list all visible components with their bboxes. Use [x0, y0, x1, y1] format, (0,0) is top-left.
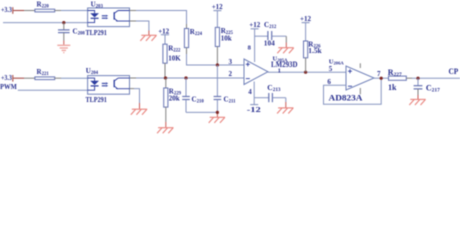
- U203 phototransistor: [113, 12, 115, 19]
- svg-text:C208: C208: [73, 28, 86, 37]
- svg-text:CP: CP: [449, 66, 459, 76]
- net 2 wire: [130, 77, 245, 79]
- power +12 for R222: [158, 28, 169, 45]
- svg-text:104: 104: [264, 38, 275, 47]
- junction dot R222/R229 on net2: [164, 76, 167, 79]
- wire U206A output: [374, 77, 389, 79]
- capacitor C212: [255, 21, 287, 48]
- capacitor C210: [182, 78, 204, 112]
- svg-text:R221: R221: [37, 68, 50, 77]
- U203 LED: [88, 11, 95, 14]
- power ground below C210/C211: [209, 117, 225, 123]
- wire U203 collector to R224: [130, 11, 187, 25]
- port +3.3 (row 1): [1, 5, 13, 14]
- svg-text:C212: C212: [264, 21, 277, 30]
- wire R224 to net3: [187, 54, 245, 65]
- svg-text:LM293D: LM293D: [271, 60, 298, 69]
- svg-text:R227: R227: [388, 68, 402, 78]
- wire U204 emitter to ground: [130, 89, 140, 109]
- svg-text:8: 8: [248, 44, 252, 51]
- wire U205A output to U206A: [268, 71, 346, 73]
- op-amp U206A AD823A: [327, 58, 374, 94]
- capacitor C213: [254, 83, 286, 108]
- power ground at C212: [277, 48, 293, 54]
- svg-text:C211: C211: [224, 96, 237, 105]
- wire R221 to U204 pin1: [61, 77, 88, 79]
- resistor R227: [388, 68, 412, 92]
- capacitor C211: [214, 65, 236, 112]
- resistor R220: [24, 1, 61, 12]
- svg-text:1k: 1k: [388, 83, 397, 92]
- svg-text:C217: C217: [426, 83, 440, 93]
- svg-text:R220: R220: [37, 1, 50, 10]
- junction dot net3: [216, 63, 219, 66]
- svg-text:3: 3: [229, 58, 233, 66]
- svg-text:1.5k: 1.5k: [308, 46, 322, 55]
- svg-text:20k: 20k: [169, 95, 180, 103]
- svg-text:-12: -12: [247, 106, 262, 114]
- svg-text:7: 7: [377, 70, 381, 78]
- svg-text:AD823A: AD823A: [329, 93, 363, 102]
- power ground below R229: [157, 128, 173, 134]
- wire PWM to U204 cathode: [18, 89, 88, 91]
- svg-text:C210: C210: [192, 96, 205, 105]
- junction dot feedback: [380, 77, 383, 80]
- junction dot at R226: [304, 71, 307, 74]
- resistor R229: [164, 78, 182, 127]
- resistor R222: [163, 44, 181, 78]
- optocoupler U203 TLP291: [86, 0, 130, 37]
- junction dot cap commons: [216, 111, 219, 114]
- svg-text:2: 2: [229, 70, 233, 78]
- junction dot C210 on net2: [184, 76, 187, 79]
- resistor R221: [24, 68, 61, 80]
- svg-text:5: 5: [329, 65, 333, 73]
- U204 coupling arrows: [102, 82, 106, 84]
- svg-text:R224: R224: [190, 28, 203, 37]
- svg-text:TLP291: TLP291: [86, 95, 107, 104]
- optocoupler U204 TLP291: [86, 67, 130, 104]
- svg-text:PWM: PWM: [0, 82, 17, 91]
- svg-text:10k: 10k: [221, 35, 232, 43]
- op-amp U205A LM293D: [244, 55, 298, 84]
- wire capacitor commons to ground: [186, 112, 217, 117]
- earth ground below C208: [57, 45, 70, 52]
- power ground at U203 emitter: [140, 35, 156, 41]
- junction dot at C217: [416, 77, 419, 80]
- svg-text:4: 4: [248, 88, 252, 96]
- junction at C208: [62, 21, 65, 24]
- svg-text:+12: +12: [212, 3, 223, 11]
- resistor R226: [304, 40, 323, 72]
- power ground at C213: [277, 108, 293, 114]
- svg-text:U204: U204: [86, 67, 99, 76]
- svg-text:+12: +12: [300, 15, 311, 23]
- U204 phototransistor: [113, 80, 115, 87]
- wire R227 to CP: [412, 77, 460, 79]
- svg-text:+3.3: +3.3: [1, 5, 12, 14]
- wire +3.3 to R220: [13, 10, 24, 12]
- power ground at C217: [409, 99, 425, 105]
- wire LED cathode net (row 1): [3, 22, 88, 24]
- svg-text:+12: +12: [249, 21, 260, 29]
- svg-text:10K: 10K: [168, 54, 181, 62]
- power +12 for R225: [212, 3, 223, 28]
- U205A pin 4 supply: [247, 82, 262, 115]
- feedback wire U206A out to pin 6: [324, 78, 382, 104]
- svg-text:1: 1: [278, 68, 281, 75]
- power ground at U204 emitter: [131, 109, 147, 115]
- resistor R224: [184, 24, 202, 54]
- U203 coupling arrows: [102, 15, 106, 17]
- capacitor C208: [58, 23, 85, 45]
- wire R220 to U203 pin1: [61, 10, 88, 12]
- U205A pin 8 supply: [248, 21, 261, 62]
- wire +3.3 to R221: [13, 77, 24, 79]
- svg-text:TLP291: TLP291: [86, 28, 107, 37]
- power +12 for R226: [300, 15, 311, 41]
- resistor R225: [215, 27, 233, 65]
- port +3.3 (row 2): [1, 73, 13, 82]
- svg-text:U203: U203: [91, 0, 104, 9]
- svg-text:R222: R222: [168, 45, 181, 54]
- wire U203 emitter to ground: [130, 21, 149, 35]
- svg-text:+3.3: +3.3: [1, 73, 12, 82]
- U204 LED: [88, 78, 95, 81]
- svg-text:C213: C213: [267, 83, 281, 93]
- capacitor C217: [414, 78, 440, 99]
